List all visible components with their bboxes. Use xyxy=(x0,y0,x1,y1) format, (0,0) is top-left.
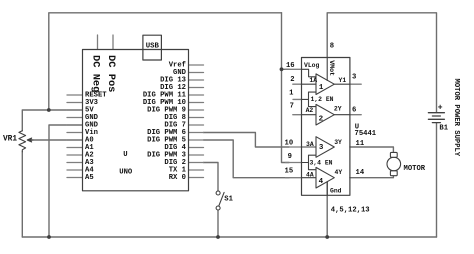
junction dot 5V / top rail xyxy=(47,108,51,112)
arduino USB connector xyxy=(143,35,162,60)
arduino pin labels left xyxy=(85,92,107,183)
wire A0 to VR1 wiper xyxy=(28,139,83,141)
svg-text:1A: 1A xyxy=(309,77,317,84)
IC driver triangle 3 xyxy=(316,137,334,158)
svg-text:14: 14 xyxy=(356,169,365,177)
svg-text:VLog: VLog xyxy=(304,62,320,69)
wire S1 to ground rail xyxy=(217,210,219,237)
IC internal labels xyxy=(304,62,346,195)
IC output wire 2Y xyxy=(334,114,350,116)
junction dot IC Gnd / rail xyxy=(325,235,329,239)
svg-text:1: 1 xyxy=(289,89,294,97)
svg-text:3A: 3A xyxy=(306,141,314,148)
svg-text:16: 16 xyxy=(286,62,295,70)
arduino U1 pin stubs right xyxy=(189,65,204,178)
IC input wire 4A xyxy=(302,177,317,179)
wire DIG PWM 6 to IC pin 10 xyxy=(204,133,290,148)
junction dot VLog pin 16 xyxy=(280,67,284,71)
svg-text:UNO: UNO xyxy=(119,168,133,176)
svg-text:3Y: 3Y xyxy=(334,139,342,146)
svg-text:A5: A5 xyxy=(85,174,94,182)
svg-text:2Y: 2Y xyxy=(334,106,342,113)
svg-text:15: 15 xyxy=(285,167,294,175)
IC Gnd pin rise inside xyxy=(326,182,328,195)
svg-text:+: + xyxy=(438,103,443,112)
svg-text:USB: USB xyxy=(146,42,160,50)
switch S1 contact bottom xyxy=(216,206,220,210)
wire VR1 bottom to ground rail xyxy=(21,152,23,237)
svg-text:1,2 EN: 1,2 EN xyxy=(311,96,334,103)
junction dot GND / rail xyxy=(47,235,51,239)
IC U2 pin stubs right (3 and 6 unconnected) xyxy=(350,84,361,115)
svg-text:A2: A2 xyxy=(306,107,314,114)
wire GND to rail xyxy=(49,125,83,237)
svg-text:4Y: 4Y xyxy=(335,169,343,176)
IC driver triangle 4 xyxy=(316,167,334,188)
svg-text:3: 3 xyxy=(352,73,356,81)
IC VLog internal step xyxy=(302,69,317,77)
svg-text:DC Pos: DC Pos xyxy=(105,55,117,92)
svg-text:Gnd: Gnd xyxy=(330,188,342,195)
wire bottom ground rail xyxy=(22,236,436,238)
svg-text:8: 8 xyxy=(330,43,334,51)
svg-text:RX 0: RX 0 xyxy=(169,174,186,182)
motor M1 body xyxy=(387,157,401,171)
motor brush bottom xyxy=(390,171,397,176)
arduino DC jack pins top xyxy=(98,35,114,50)
svg-text:MOTOR: MOTOR xyxy=(404,165,426,173)
IC driver triangle 2 xyxy=(316,104,334,125)
svg-text:3: 3 xyxy=(319,144,324,152)
svg-text:10: 10 xyxy=(285,139,294,147)
svg-text:VR1: VR1 xyxy=(3,135,17,143)
wire IC pin 11 (3Y) to motor + xyxy=(350,147,394,153)
wire VLog riser down to pin 9 (3,4 EN) xyxy=(282,13,290,163)
arduino U1 pin stubs left xyxy=(67,95,83,178)
svg-text:3,4 EN: 3,4 EN xyxy=(310,159,333,166)
wire IC pin 14 (4Y) to motor - xyxy=(350,176,394,178)
wire top rail left (5V to VLog) xyxy=(49,13,282,110)
svg-text:7: 7 xyxy=(290,102,294,110)
IC input wire 2A xyxy=(302,114,317,116)
IC input wire 3A xyxy=(302,146,317,148)
wire DIG 2 to switch S1 xyxy=(204,163,219,191)
svg-text:4,5,12,13: 4,5,12,13 xyxy=(331,206,370,214)
svg-text:Y1: Y1 xyxy=(339,77,347,84)
svg-text:4A: 4A xyxy=(306,171,314,178)
svg-text:9: 9 xyxy=(288,153,292,161)
wire IC Gnd pin to ground rail xyxy=(326,182,328,237)
wire battery minus to ground rail xyxy=(436,123,438,237)
IC input wire 1A xyxy=(302,83,317,85)
svg-text:4: 4 xyxy=(319,178,324,186)
svg-text:B1: B1 xyxy=(439,124,448,132)
wire top rail right (VMot pin 8 to battery) xyxy=(327,13,436,112)
arduino U1 body xyxy=(83,50,189,191)
svg-text:VMot: VMot xyxy=(328,60,335,76)
switch S1 contact top xyxy=(216,191,220,195)
svg-text:11: 11 xyxy=(356,140,365,148)
battery B1 plates xyxy=(428,112,444,114)
svg-text:2: 2 xyxy=(319,116,324,124)
svg-text:75441: 75441 xyxy=(355,130,377,138)
svg-text:S1: S1 xyxy=(224,196,233,204)
svg-text:MOTOR POWER SUPPLY: MOTOR POWER SUPPLY xyxy=(452,79,460,157)
junction dot S1 / rail xyxy=(216,235,220,239)
motor brush top xyxy=(390,152,397,157)
svg-text:DC Neg: DC Neg xyxy=(89,55,101,92)
svg-text:6: 6 xyxy=(352,107,356,115)
IC U2 body 75441 xyxy=(302,58,350,196)
wire 5V to VR1 top xyxy=(22,110,82,131)
VR1 wiper arrow xyxy=(27,138,33,142)
arduino pin labels right xyxy=(143,62,187,183)
IC 1,2 EN internal step xyxy=(302,92,317,107)
IC driver triangle 1 xyxy=(316,74,334,95)
switch S1 blade xyxy=(219,192,224,205)
IC driver numbers xyxy=(319,84,324,186)
IC U2 pin stubs left xyxy=(286,69,302,177)
potentiometer VR1 xyxy=(19,131,26,152)
svg-text:1: 1 xyxy=(319,84,324,92)
wire VLog pin 16 xyxy=(282,68,290,70)
svg-text:U: U xyxy=(123,151,127,159)
svg-text:2: 2 xyxy=(290,76,294,84)
IC output wire 1Y xyxy=(334,83,350,85)
IC VMot pin drop inside xyxy=(326,58,328,81)
wire DIG PWM 5 to IC pin 15 xyxy=(204,140,290,178)
IC 3,4 EN internal step xyxy=(302,155,317,170)
